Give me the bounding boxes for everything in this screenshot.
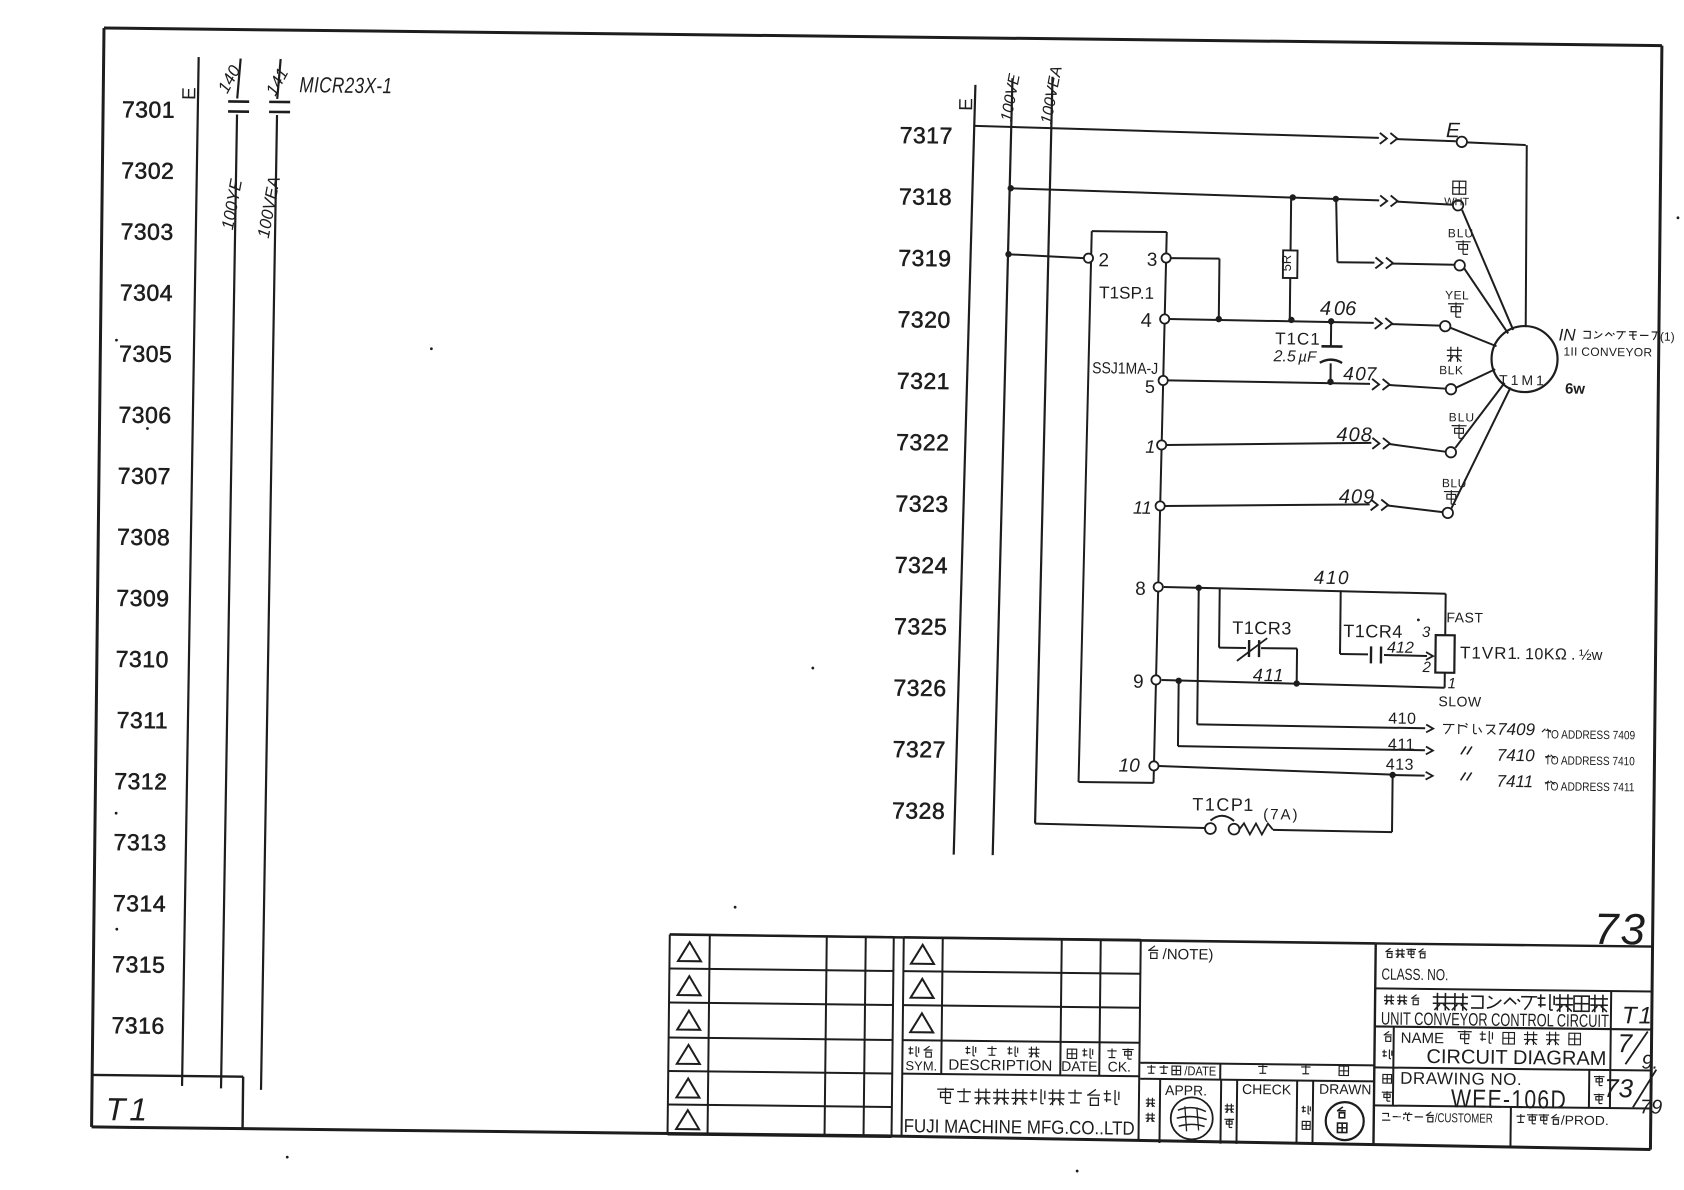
svg-text:7319: 7319 <box>898 245 951 272</box>
svg-text:(7A): (7A) <box>1263 806 1300 823</box>
svg-text:7326: 7326 <box>893 675 946 702</box>
svg-text:/DATE: /DATE <box>1184 1063 1216 1078</box>
svg-text:½w: ½w <box>1579 647 1603 664</box>
svg-text:411: 411 <box>1388 737 1415 754</box>
svg-text:T1: T1 <box>1622 1002 1654 1029</box>
svg-text:7304: 7304 <box>120 279 173 306</box>
svg-text:CIRCUIT DIAGRAM: CIRCUIT DIAGRAM <box>1426 1046 1606 1070</box>
svg-text:7411: 7411 <box>1496 772 1533 791</box>
svg-text:7: 7 <box>1617 1028 1633 1058</box>
svg-text:7409: 7409 <box>1497 720 1536 739</box>
svg-text:E: E <box>1446 119 1461 142</box>
svg-text:10: 10 <box>1118 756 1140 777</box>
svg-text:FUJI MACHINE MFG.CO..LTD: FUJI MACHINE MFG.CO..LTD <box>904 1116 1135 1140</box>
svg-text:7315: 7315 <box>112 951 165 978</box>
svg-text:SLOW: SLOW <box>1438 693 1482 709</box>
svg-text:7301: 7301 <box>122 96 175 123</box>
svg-text:413: 413 <box>1386 757 1414 774</box>
svg-text:BLU: BLU <box>1449 410 1476 424</box>
svg-text:7322: 7322 <box>896 429 949 456</box>
svg-text:409: 409 <box>1339 486 1376 508</box>
svg-text:TO ADDRESS 7409: TO ADDRESS 7409 <box>1545 727 1635 742</box>
svg-text:/PROD.: /PROD. <box>1561 1113 1609 1129</box>
svg-text:7325: 7325 <box>894 613 947 640</box>
svg-text:11: 11 <box>1133 498 1152 518</box>
svg-text:6w: 6w <box>1565 381 1586 398</box>
svg-text:E: E <box>956 98 977 111</box>
svg-text:APPR.: APPR. <box>1165 1082 1207 1098</box>
svg-text:5: 5 <box>1145 377 1155 397</box>
svg-text:.: . <box>1571 647 1576 664</box>
svg-text:BLK: BLK <box>1439 363 1463 377</box>
svg-text:SSJ1MA-J: SSJ1MA-J <box>1092 360 1158 378</box>
svg-text:/NOTE): /NOTE) <box>1163 946 1214 964</box>
svg-text:7327: 7327 <box>893 736 946 763</box>
svg-text:7321: 7321 <box>897 368 950 395</box>
svg-text:7316: 7316 <box>111 1012 164 1039</box>
svg-text:T1SP.1: T1SP.1 <box>1099 283 1154 303</box>
svg-text:FAST: FAST <box>1446 609 1483 625</box>
svg-text:2: 2 <box>1421 659 1431 676</box>
svg-text:UNIT CONVEYOR CONTROL CIRCUIT: UNIT CONVEYOR CONTROL CIRCUIT <box>1381 1008 1609 1031</box>
svg-text:7323: 7323 <box>895 490 948 517</box>
svg-text:1II CONVEYOR: 1II CONVEYOR <box>1563 345 1652 360</box>
svg-text:T1C1: T1C1 <box>1275 329 1321 349</box>
svg-text:7320: 7320 <box>897 306 950 333</box>
svg-text:7310: 7310 <box>116 646 169 673</box>
svg-text:07: 07 <box>1355 364 1378 385</box>
svg-text:E: E <box>179 87 200 100</box>
svg-text:T1M1: T1M1 <box>1499 372 1547 389</box>
svg-text:410: 410 <box>1314 568 1350 589</box>
svg-text:1: 1 <box>1448 675 1457 692</box>
svg-text:408: 408 <box>1336 424 1373 446</box>
svg-text:9: 9 <box>1133 672 1144 693</box>
svg-text:CHECK: CHECK <box>1242 1081 1292 1098</box>
svg-text:7328: 7328 <box>892 797 945 824</box>
svg-text:T1CP: T1CP <box>1192 794 1244 815</box>
svg-text:1: 1 <box>1145 437 1155 457</box>
svg-text:7307: 7307 <box>118 463 171 490</box>
svg-text:06: 06 <box>1334 298 1357 320</box>
svg-text:CLASS. NO.: CLASS. NO. <box>1381 966 1448 984</box>
svg-text:3: 3 <box>1147 250 1158 271</box>
svg-text:7305: 7305 <box>119 340 172 367</box>
svg-text:TO ADDRESS 7410: TO ADDRESS 7410 <box>1545 753 1635 768</box>
svg-text:7410: 7410 <box>1497 746 1536 765</box>
svg-text:412: 412 <box>1387 640 1414 657</box>
svg-text:7302: 7302 <box>121 157 174 184</box>
svg-text:TO ADDRESS 7411: TO ADDRESS 7411 <box>1544 779 1634 794</box>
svg-text:T1CR3: T1CR3 <box>1232 618 1292 639</box>
svg-text:1: 1 <box>1243 795 1253 815</box>
svg-text:7306: 7306 <box>118 402 171 429</box>
svg-text:7303: 7303 <box>120 218 173 245</box>
svg-text:410: 410 <box>1388 711 1416 728</box>
svg-text:7308: 7308 <box>117 524 170 551</box>
svg-text:7317: 7317 <box>900 122 953 149</box>
svg-text:4: 4 <box>1343 364 1354 385</box>
svg-text:7318: 7318 <box>899 183 952 210</box>
svg-text:10KΩ: 10KΩ <box>1525 646 1568 663</box>
svg-text:(1): (1) <box>1660 330 1675 344</box>
svg-text:7313: 7313 <box>113 829 166 856</box>
svg-text:7312: 7312 <box>114 768 167 795</box>
svg-text:73: 73 <box>1604 1073 1634 1103</box>
svg-text:DESCRIPTION: DESCRIPTION <box>948 1057 1052 1075</box>
svg-text:8: 8 <box>1135 579 1146 600</box>
svg-text:2.5: 2.5 <box>1272 348 1296 365</box>
svg-text:T1CR4: T1CR4 <box>1343 621 1403 642</box>
svg-text:3: 3 <box>1422 624 1431 641</box>
svg-text:79: 79 <box>1640 1096 1662 1118</box>
svg-text:µF: µF <box>1298 349 1317 366</box>
svg-text:7314: 7314 <box>113 890 166 917</box>
svg-text:7324: 7324 <box>895 552 948 579</box>
svg-text:CK.: CK. <box>1108 1058 1132 1074</box>
svg-text:IN: IN <box>1559 325 1577 344</box>
svg-text:2: 2 <box>1098 250 1109 271</box>
svg-text:5R: 5R <box>1279 255 1294 272</box>
svg-text:.: . <box>1516 644 1521 663</box>
svg-text:MICR23X-1: MICR23X-1 <box>299 72 392 98</box>
svg-text:4: 4 <box>1141 310 1152 332</box>
svg-text:7309: 7309 <box>116 585 169 612</box>
svg-text:DATE: DATE <box>1061 1058 1097 1074</box>
svg-text:73: 73 <box>1594 905 1648 955</box>
svg-text:7311: 7311 <box>117 707 169 734</box>
svg-text:/CUSTOMER: /CUSTOMER <box>1435 1110 1493 1126</box>
svg-text:T1: T1 <box>106 1091 152 1128</box>
svg-text:YEL: YEL <box>1445 288 1469 302</box>
svg-text:SYM.: SYM. <box>905 1058 937 1073</box>
svg-text:NAME: NAME <box>1401 1030 1445 1047</box>
svg-text:4: 4 <box>1320 298 1331 320</box>
svg-text:WHT: WHT <box>1444 196 1469 208</box>
svg-text:T1VR1: T1VR1 <box>1460 643 1518 663</box>
svg-text:DRAWN: DRAWN <box>1319 1081 1372 1098</box>
